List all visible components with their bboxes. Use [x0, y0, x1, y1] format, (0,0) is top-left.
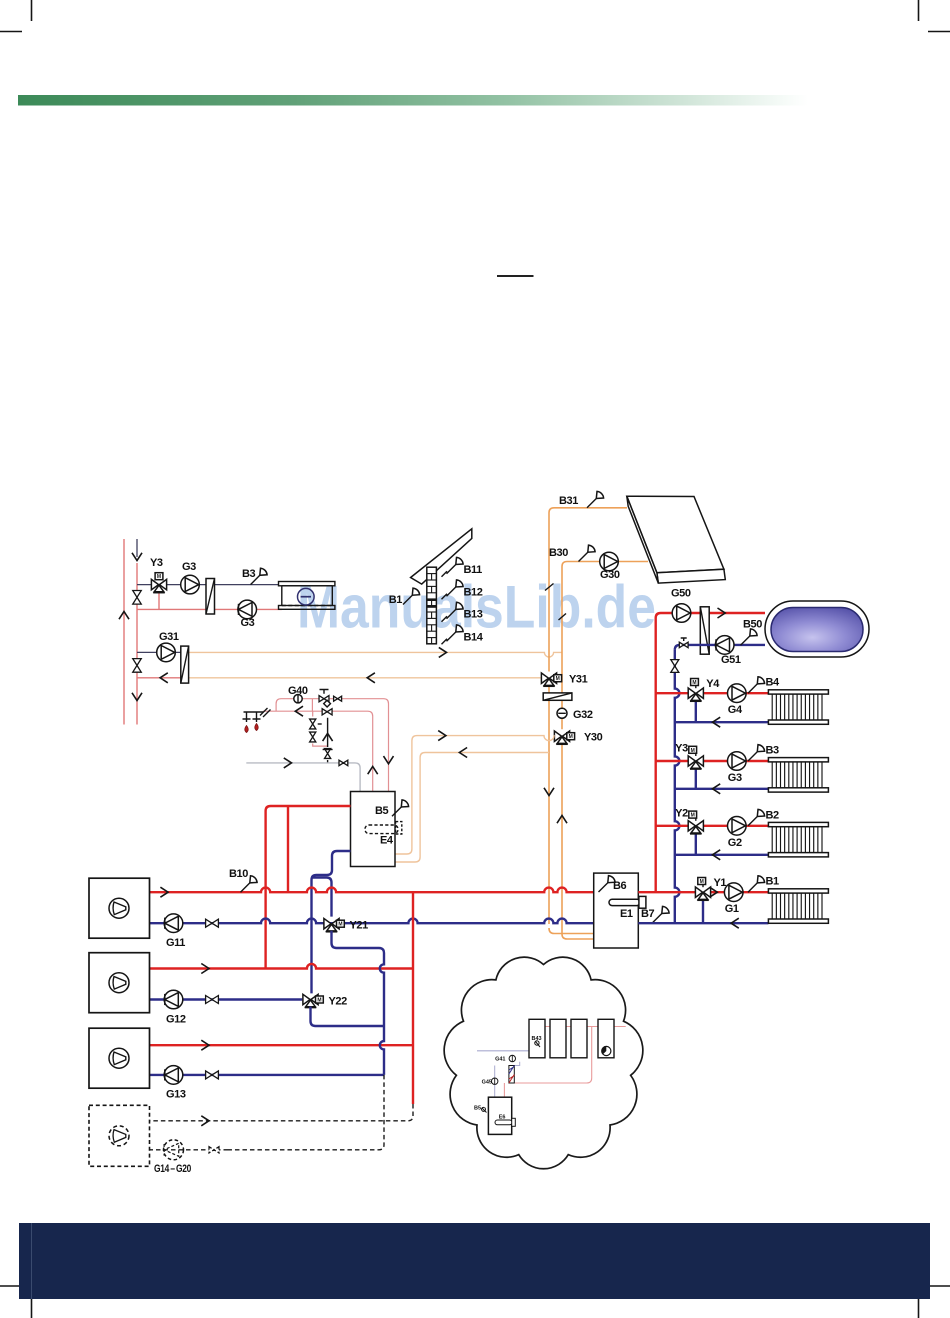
svg-text:G14 – G20: G14 – G20 — [154, 1163, 191, 1175]
svg-text:Y31: Y31 — [569, 674, 588, 686]
svg-text:Y3: Y3 — [150, 557, 163, 569]
svg-text:G11: G11 — [166, 937, 185, 949]
svg-text:B31: B31 — [559, 495, 578, 507]
svg-text:G45: G45 — [482, 1080, 492, 1086]
svg-text:B50: B50 — [743, 619, 762, 631]
svg-text:G3: G3 — [182, 561, 196, 573]
svg-text:Y4: Y4 — [706, 678, 720, 690]
svg-text:B5: B5 — [375, 805, 389, 817]
svg-text:G2: G2 — [728, 837, 742, 849]
svg-text:B7: B7 — [641, 908, 655, 920]
svg-text:B4: B4 — [766, 677, 781, 689]
svg-text:E4: E4 — [380, 835, 394, 847]
svg-text:G50: G50 — [671, 588, 691, 600]
svg-text:Y2: Y2 — [675, 807, 688, 819]
svg-text:G51: G51 — [721, 654, 741, 666]
svg-text:G12: G12 — [166, 1014, 186, 1026]
svg-text:B1: B1 — [766, 876, 780, 888]
svg-text:G3: G3 — [728, 772, 742, 784]
svg-text:B13: B13 — [464, 609, 483, 621]
svg-text:B3: B3 — [242, 568, 256, 580]
svg-text:E6: E6 — [499, 1115, 506, 1121]
svg-text:Y22: Y22 — [329, 995, 348, 1007]
svg-text:Y3: Y3 — [675, 743, 688, 755]
svg-text:G30: G30 — [600, 569, 620, 581]
svg-text:Y30: Y30 — [584, 732, 603, 744]
svg-text:G13: G13 — [166, 1089, 186, 1101]
svg-text:G32: G32 — [573, 709, 593, 721]
svg-text:G4: G4 — [728, 704, 743, 716]
svg-text:G1: G1 — [725, 903, 739, 915]
svg-text:G3: G3 — [241, 617, 255, 629]
svg-text:B12: B12 — [464, 586, 483, 598]
svg-text:G31: G31 — [159, 631, 179, 643]
svg-text:B10: B10 — [229, 868, 248, 880]
svg-text:G40: G40 — [288, 685, 308, 697]
svg-text:B14: B14 — [464, 631, 484, 643]
svg-text:B30: B30 — [549, 547, 568, 559]
svg-text:E1: E1 — [620, 908, 633, 920]
svg-text:G41: G41 — [495, 1056, 505, 1062]
svg-text:B1: B1 — [389, 594, 403, 606]
svg-text:B11: B11 — [464, 564, 483, 576]
svg-text:B5: B5 — [474, 1106, 481, 1112]
svg-text:Y21: Y21 — [350, 920, 369, 932]
svg-text:B6: B6 — [613, 880, 627, 892]
svg-text:B3: B3 — [766, 745, 780, 757]
svg-text:B2: B2 — [766, 809, 780, 821]
svg-text:Y1: Y1 — [714, 877, 727, 889]
